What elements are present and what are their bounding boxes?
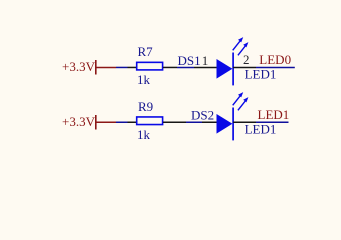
wire R7 pin 1 bbox=[128, 66, 137, 68]
svg-text:LED1: LED1 bbox=[258, 107, 290, 122]
wire R9 pin 2 bbox=[163, 121, 186, 123]
svg-text:+3.3V: +3.3V bbox=[62, 59, 96, 74]
wire (R9 to DS2) bbox=[186, 121, 202, 123]
svg-text:LED1: LED1 bbox=[245, 121, 277, 136]
svg-text:DS2: DS2 bbox=[191, 108, 214, 123]
wire R9 pin 1 bbox=[128, 121, 137, 123]
svg-text:2: 2 bbox=[243, 52, 250, 67]
svg-text:R9: R9 bbox=[138, 99, 153, 114]
LED DS1 triangle bbox=[217, 59, 233, 79]
svg-text:LED1: LED1 bbox=[245, 66, 277, 81]
wire (power to R9) bbox=[116, 121, 128, 123]
svg-text:LED0: LED0 bbox=[259, 52, 291, 67]
svg-text:R7: R7 bbox=[138, 44, 154, 59]
svg-text:DS1: DS1 bbox=[178, 53, 201, 68]
LED DS2 light arrow 2 bbox=[238, 97, 249, 110]
svg-text:1k: 1k bbox=[137, 127, 151, 142]
LED DS2 triangle bbox=[217, 114, 233, 134]
power port +3.3V (top) bbox=[62, 59, 116, 75]
LED DS1 cathode bar bbox=[232, 53, 234, 86]
LED DS2 light arrow 1 bbox=[233, 92, 244, 105]
LED DS1 light arrow 1 bbox=[233, 37, 244, 50]
wire (DS1 to net LED0) bbox=[256, 66, 295, 68]
resistor R7 bbox=[137, 62, 163, 70]
resistor R9 bbox=[137, 117, 163, 125]
wire (DS2 to net LED1) bbox=[256, 121, 289, 123]
svg-text:+3.3V: +3.3V bbox=[62, 114, 96, 129]
wire DS1 pin 2 bbox=[233, 66, 256, 68]
svg-text:1: 1 bbox=[202, 53, 209, 68]
wire (power to R7) bbox=[116, 66, 128, 68]
wire DS2 pin 2 bbox=[233, 121, 256, 123]
sheet background bbox=[0, 0, 341, 177]
wire DS2 pin 1 bbox=[202, 121, 217, 123]
wire (R7 to DS1) bbox=[177, 66, 194, 68]
power port +3.3V (bottom) bbox=[62, 114, 116, 130]
wire DS1 pin 1 bbox=[194, 66, 217, 68]
LED DS1 light arrow 2 bbox=[238, 42, 249, 55]
LED DS2 cathode bar bbox=[232, 108, 234, 141]
svg-text:1k: 1k bbox=[137, 72, 151, 87]
wire R7 pin 2 bbox=[163, 66, 177, 68]
